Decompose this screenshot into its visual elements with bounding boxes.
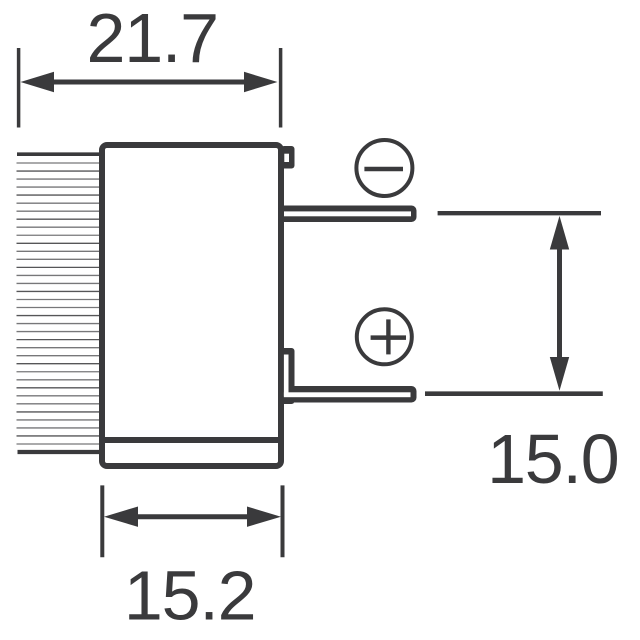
svg-text:21.7: 21.7 [86,0,217,77]
svg-text:15.0: 15.0 [487,420,618,498]
svg-text:15.2: 15.2 [124,556,255,634]
